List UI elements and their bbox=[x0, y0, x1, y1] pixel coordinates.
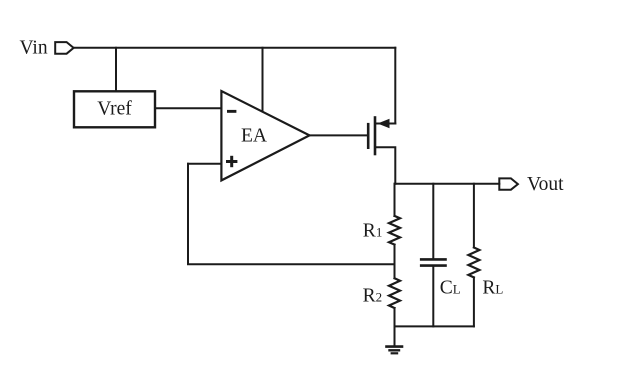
svg-text:Vin: Vin bbox=[20, 37, 48, 58]
svg-text:Vref: Vref bbox=[97, 98, 132, 119]
svg-text:R2: R2 bbox=[363, 286, 383, 307]
svg-text:CL: CL bbox=[440, 278, 461, 299]
svg-text:EA: EA bbox=[241, 126, 267, 147]
svg-text:RL: RL bbox=[482, 278, 503, 299]
svg-text:Vout: Vout bbox=[527, 174, 564, 195]
svg-text:R1: R1 bbox=[363, 221, 383, 242]
